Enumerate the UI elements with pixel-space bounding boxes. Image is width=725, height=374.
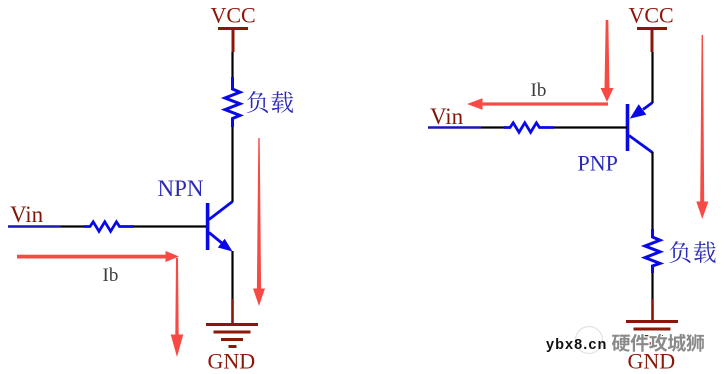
power symbol VCC (left): [218, 29, 248, 53]
wire VCC to load resistor (left): [231, 52, 233, 79]
wire VCC to emitter (right): [651, 52, 653, 103]
wire load resistor down (right black): [651, 273, 653, 299]
value label 负载 (left load): [247, 91, 293, 113]
ground symbol (left): [206, 325, 258, 347]
current arrow collector-emitter (left, long red down arrow): [253, 138, 265, 306]
resistor R3 base (horizontal zigzag right): [504, 123, 554, 133]
wire load resistor to collector (left): [231, 127, 233, 202]
value label 负载 (right load): [670, 241, 716, 263]
wire Vin net segment right (blue): [428, 126, 481, 129]
svg-text:PNP: PNP: [578, 151, 618, 176]
svg-text:Ib: Ib: [531, 80, 547, 101]
svg-text:GND: GND: [208, 349, 256, 374]
watermark text 硬件攻城狮: [612, 334, 704, 352]
wire emitter to ground (maroon): [231, 299, 234, 323]
resistor R1 load (vertical zigzag): [225, 77, 240, 127]
svg-text:NPN: NPN: [158, 176, 204, 201]
wire emitter down (left): [231, 251, 233, 299]
wire Vin to base resistor (black): [61, 225, 85, 227]
transistor Q2 PNP: [628, 103, 653, 153]
svg-text:Ib: Ib: [103, 265, 119, 286]
wire base resistor to base right (black): [554, 126, 627, 128]
wire Vin net segment (blue): [8, 225, 61, 228]
wire Vin to base resistor right (black): [481, 126, 505, 128]
watermark logo circle: [576, 327, 603, 354]
svg-text:Vin: Vin: [10, 202, 44, 227]
wire collector down (right): [651, 152, 653, 230]
resistor R2 base (horizontal zigzag): [84, 222, 134, 232]
transistor Q1 NPN: [208, 202, 233, 252]
resistor R4 load (vertical zigzag right): [645, 229, 660, 273]
ground symbol (right): [626, 322, 678, 344]
svg-text:Vin: Vin: [430, 104, 464, 129]
current arrow Ib (right, red left arrow): [467, 98, 608, 109]
current arrow into base junction (right, red down arrow): [601, 20, 614, 102]
current arrow Ib path (left, right-angle red arrow): [17, 251, 183, 357]
svg-text:ybx8.cn: ybx8.cn: [546, 337, 607, 353]
power symbol VCC (right): [637, 29, 667, 53]
svg-text:VCC: VCC: [629, 3, 674, 28]
current arrow emitter-collector (right, long red down arrow): [696, 35, 708, 219]
wire base resistor to base (black): [134, 225, 206, 227]
wire to ground (right maroon): [651, 299, 654, 320]
svg-text:VCC: VCC: [211, 3, 256, 28]
